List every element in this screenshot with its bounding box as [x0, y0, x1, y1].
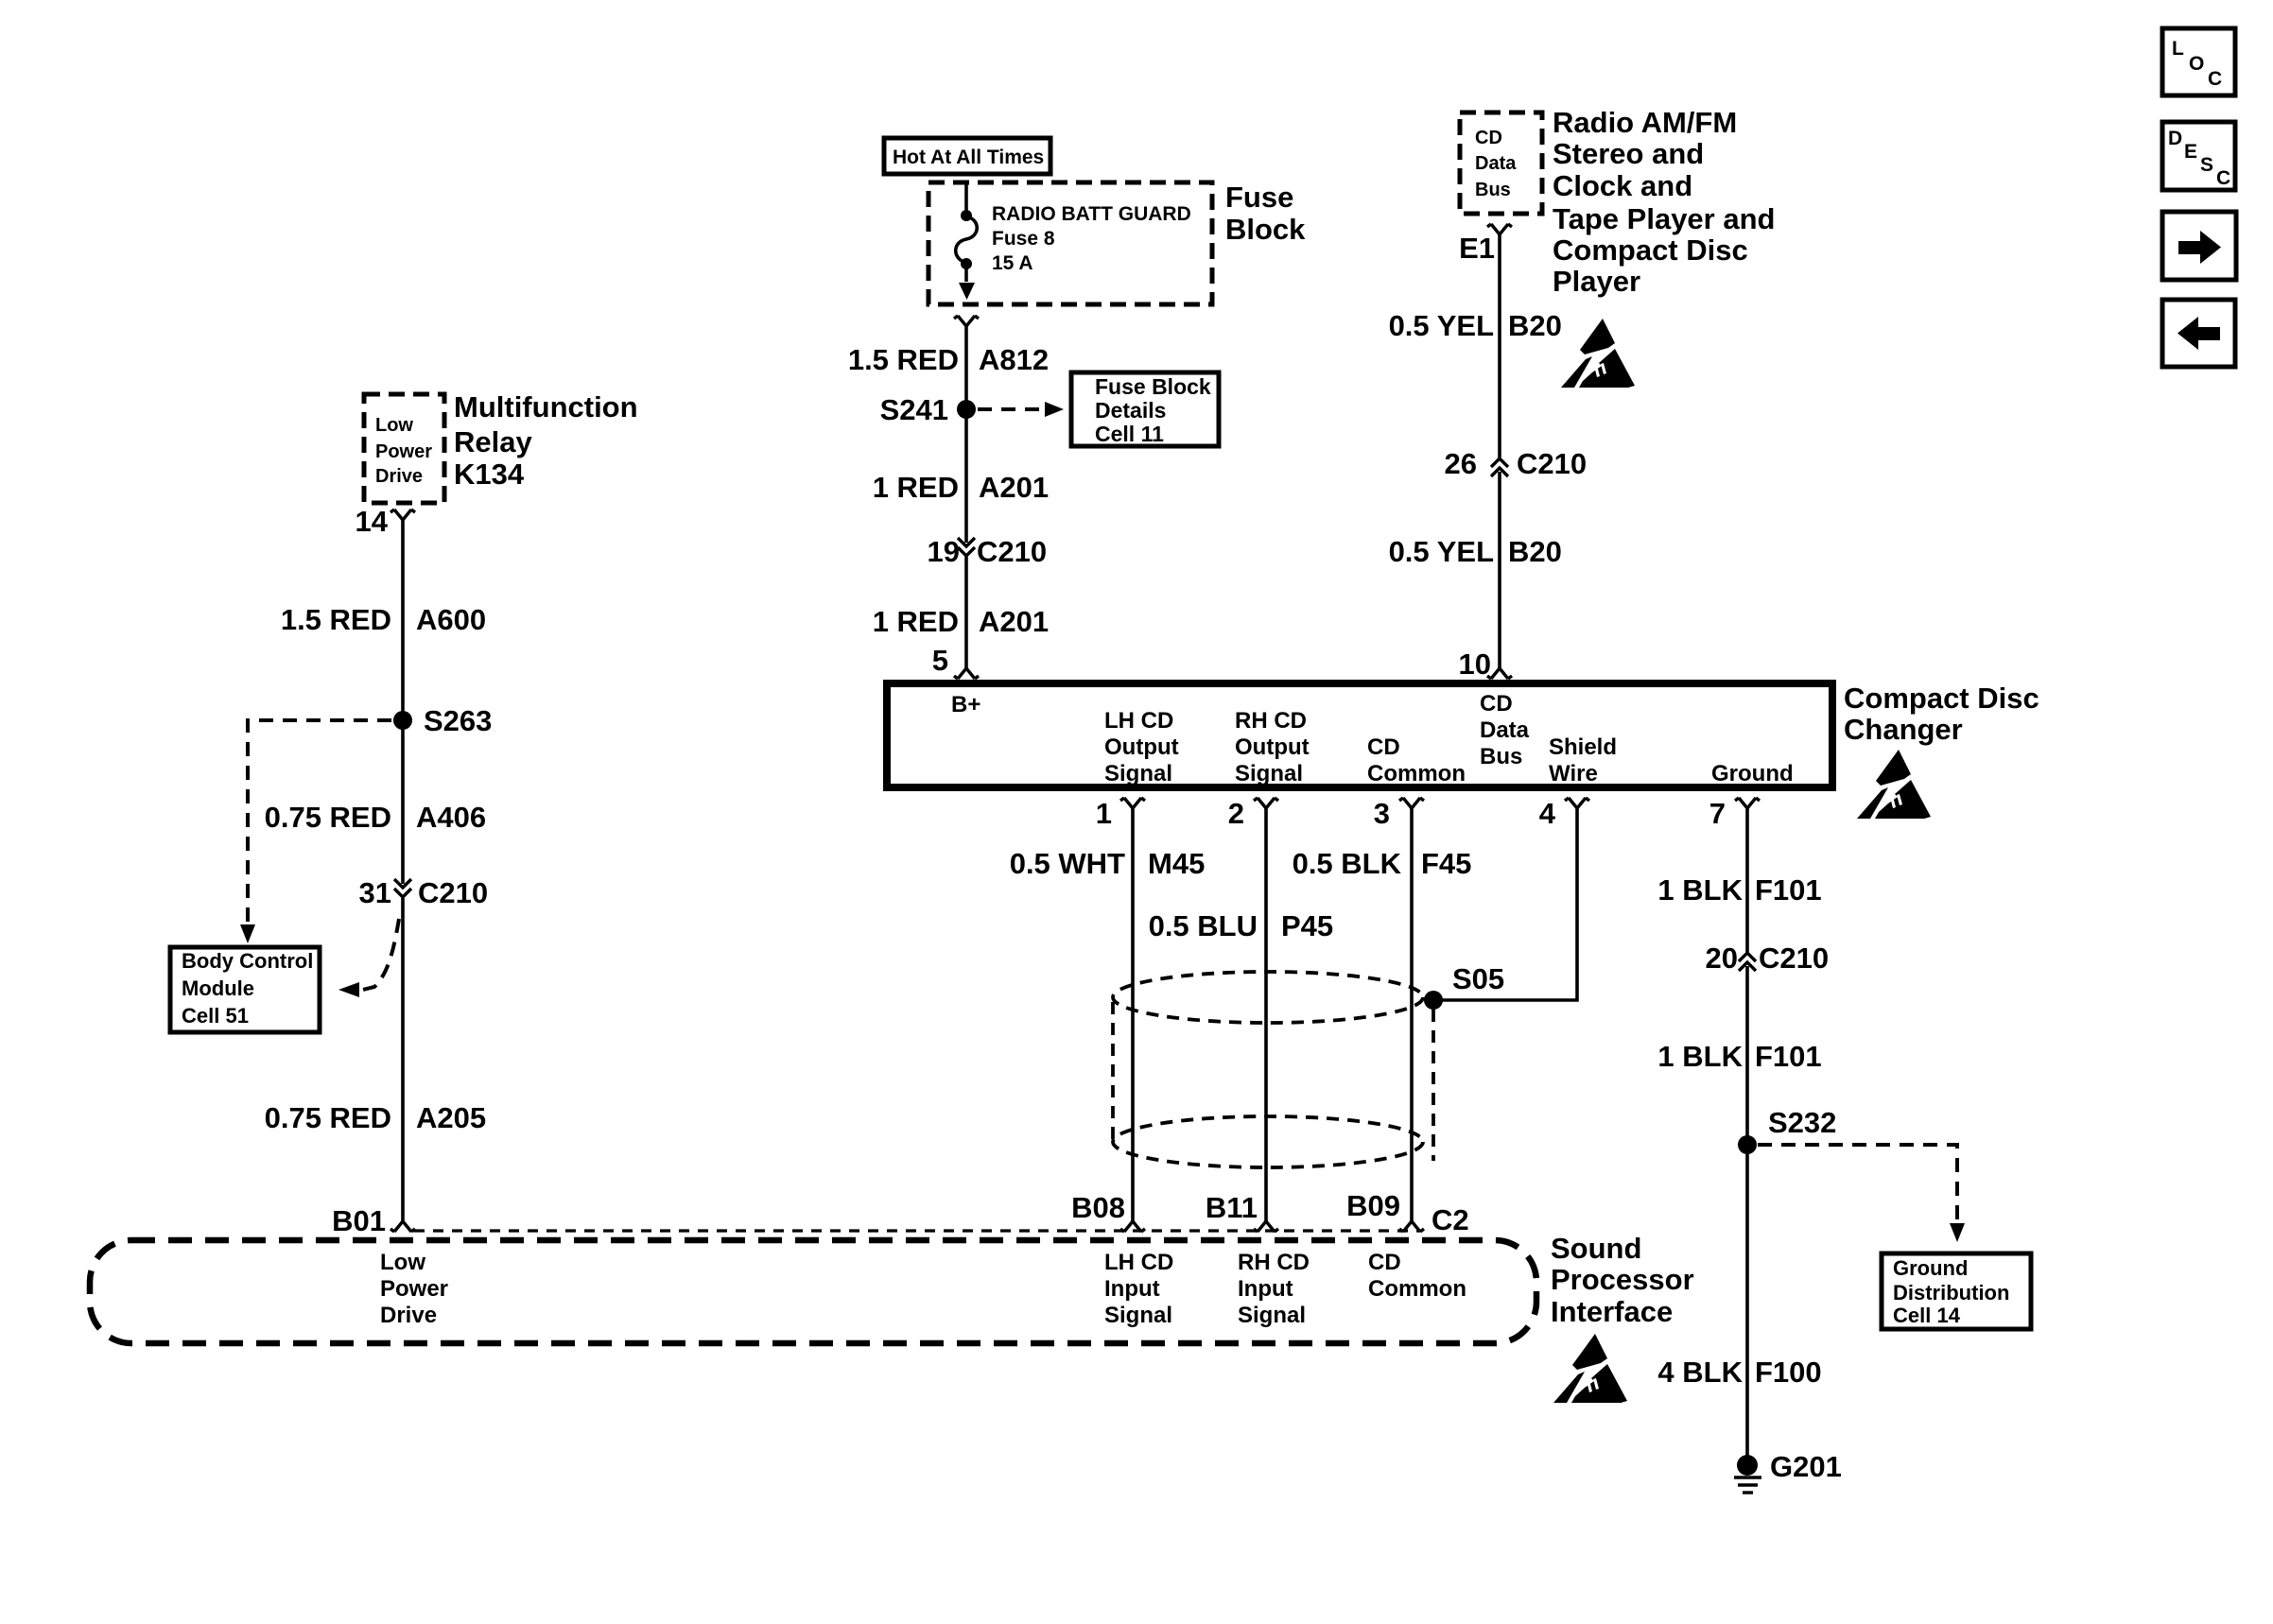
svg-text:LH CD: LH CD	[1104, 708, 1173, 734]
svg-text:CD: CD	[1480, 691, 1513, 717]
svg-text:15 A: 15 A	[992, 252, 1033, 274]
svg-text:Cell 14: Cell 14	[1893, 1304, 1961, 1327]
svg-text:Signal: Signal	[1238, 1303, 1306, 1328]
node S263	[393, 711, 412, 730]
svg-text:Radio AM/FM: Radio AM/FM	[1553, 106, 1737, 139]
svg-text:Tape Player and: Tape Player and	[1553, 202, 1775, 235]
svg-text:Ground: Ground	[1893, 1256, 1968, 1280]
svg-text:B11: B11	[1206, 1191, 1258, 1224]
hot at all times label box	[884, 138, 1050, 174]
svg-text:B20: B20	[1508, 309, 1562, 342]
ground G201	[1737, 1455, 1758, 1476]
fuse F8 wire into fuse	[964, 182, 968, 216]
svg-text:1 RED: 1 RED	[873, 471, 959, 504]
svg-text:RH CD: RH CD	[1238, 1250, 1310, 1275]
LOC button	[2162, 28, 2235, 95]
svg-text:Distribution: Distribution	[1893, 1281, 2009, 1304]
wire F101/F100 vertical	[1745, 808, 1749, 1465]
svg-text:31: 31	[359, 876, 391, 909]
svg-text:S: S	[2200, 154, 2213, 176]
wire B20 vertical	[1498, 234, 1501, 668]
svg-text:C210: C210	[1517, 447, 1587, 480]
svg-text:7: 7	[1709, 797, 1726, 830]
svg-text:1 BLK: 1 BLK	[1657, 1040, 1743, 1073]
svg-text:Common: Common	[1368, 1276, 1466, 1302]
svg-text:2: 2	[1228, 797, 1244, 830]
pin 10 connector fork	[1487, 668, 1512, 679]
svg-text:Shield: Shield	[1549, 734, 1617, 760]
svg-text:Body Control: Body Control	[182, 949, 313, 973]
svg-text:Data: Data	[1475, 153, 1517, 174]
svg-text:F100: F100	[1755, 1356, 1822, 1389]
svg-text:0.75 RED: 0.75 RED	[265, 1101, 391, 1134]
svg-text:26: 26	[1445, 447, 1477, 480]
svg-text:C210: C210	[418, 876, 488, 909]
svg-text:Output: Output	[1235, 734, 1310, 760]
svg-text:Clock and: Clock and	[1553, 169, 1692, 202]
fuse F8 element	[961, 210, 972, 221]
fuse block details box	[1071, 372, 1219, 446]
svg-text:Drive: Drive	[375, 466, 423, 487]
svg-text:Input: Input	[1238, 1276, 1293, 1302]
svg-text:C210: C210	[977, 535, 1047, 568]
svg-text:Common: Common	[1367, 761, 1466, 786]
svg-text:CD: CD	[1367, 734, 1400, 760]
svg-text:Player: Player	[1553, 265, 1640, 298]
svg-text:Relay: Relay	[454, 425, 532, 458]
back arrow button	[2162, 300, 2235, 367]
svg-text:Fuse Block: Fuse Block	[1095, 374, 1211, 399]
svg-text:Drive: Drive	[380, 1303, 437, 1328]
svg-text:B+: B+	[951, 692, 980, 717]
svg-text:Signal: Signal	[1104, 761, 1172, 786]
svg-text:D: D	[2168, 128, 2182, 149]
DESC button	[2162, 122, 2235, 190]
svg-text:F101: F101	[1755, 1040, 1822, 1073]
compact disc changer box	[887, 683, 1832, 787]
shield cylinder bottom ellipse	[1113, 1116, 1423, 1167]
svg-text:C210: C210	[1759, 942, 1829, 975]
svg-text:Bus: Bus	[1475, 180, 1511, 200]
svg-text:1.5 RED: 1.5 RED	[848, 343, 959, 376]
dashed reference from S232 to ground distribution	[1758, 1145, 1957, 1225]
svg-text:Details: Details	[1095, 398, 1166, 423]
svg-text:1 RED: 1 RED	[873, 605, 959, 638]
wire M45	[1131, 808, 1135, 1221]
ESD symbol compact disc changer	[1857, 750, 1931, 819]
svg-text:Low: Low	[380, 1250, 425, 1275]
svg-text:Signal: Signal	[1235, 761, 1303, 786]
ground distribution box	[1882, 1253, 2031, 1329]
ESD symbol radio	[1561, 319, 1635, 388]
node S232	[1738, 1135, 1757, 1154]
svg-text:CD: CD	[1475, 128, 1502, 148]
svg-text:O: O	[2189, 53, 2204, 75]
svg-text:Processor: Processor	[1551, 1263, 1694, 1296]
svg-text:Interface: Interface	[1551, 1295, 1673, 1328]
svg-text:Cell 51: Cell 51	[182, 1004, 249, 1028]
svg-text:K134: K134	[454, 458, 525, 491]
svg-text:0.5 BLU: 0.5 BLU	[1149, 909, 1258, 942]
shield cylinder top ellipse	[1113, 972, 1423, 1023]
svg-text:A205: A205	[416, 1101, 486, 1134]
wire P45	[1264, 808, 1268, 1221]
svg-text:A201: A201	[979, 605, 1049, 638]
shield drain dashed wire	[1431, 1010, 1435, 1161]
svg-text:10: 10	[1459, 648, 1491, 681]
svg-text:A201: A201	[979, 471, 1049, 504]
svg-text:Fuse: Fuse	[1225, 181, 1293, 214]
svg-text:B01: B01	[332, 1204, 386, 1237]
svg-text:C: C	[2216, 167, 2230, 189]
shield cylinder left wall	[1111, 1002, 1115, 1139]
svg-text:Hot At All Times: Hot At All Times	[893, 147, 1044, 168]
svg-text:M45: M45	[1148, 847, 1205, 880]
svg-text:A812: A812	[979, 343, 1049, 376]
fuse block dashed box	[928, 182, 1212, 304]
wire F45	[1410, 808, 1414, 1221]
svg-text:F45: F45	[1421, 847, 1471, 880]
svg-text:Signal: Signal	[1104, 1303, 1172, 1328]
dashed reference wire from S263 to Body Control Module	[248, 720, 391, 924]
svg-text:Compact Disc: Compact Disc	[1553, 233, 1748, 267]
svg-text:E: E	[2184, 141, 2197, 163]
svg-text:RADIO BATT GUARD: RADIO BATT GUARD	[992, 203, 1191, 225]
svg-text:Block: Block	[1225, 213, 1306, 246]
svg-text:Bus: Bus	[1480, 744, 1522, 769]
svg-text:Low: Low	[375, 415, 413, 436]
svg-text:Sound: Sound	[1551, 1232, 1641, 1265]
svg-text:S232: S232	[1768, 1106, 1836, 1139]
svg-text:B20: B20	[1508, 535, 1562, 568]
svg-text:B09: B09	[1346, 1189, 1400, 1222]
svg-text:C2: C2	[1431, 1203, 1469, 1236]
svg-text:0.75 RED: 0.75 RED	[265, 801, 391, 834]
svg-text:1 BLK: 1 BLK	[1657, 873, 1743, 907]
svg-text:Module: Module	[182, 976, 254, 1000]
svg-text:Output: Output	[1104, 734, 1179, 760]
pin E1 connector fork	[1487, 224, 1512, 234]
wire shield to S05	[1433, 808, 1577, 1000]
node S241	[957, 400, 976, 419]
svg-text:Data: Data	[1480, 717, 1530, 743]
svg-text:Power: Power	[380, 1276, 448, 1302]
svg-text:F101: F101	[1755, 873, 1822, 907]
svg-text:G201: G201	[1770, 1450, 1842, 1483]
svg-text:0.5 YEL: 0.5 YEL	[1389, 535, 1494, 568]
pin 14 connector fork	[390, 510, 415, 520]
dashed reference from C210 to body control module	[363, 919, 399, 990]
svg-text:Ground: Ground	[1711, 761, 1794, 786]
body control module box	[170, 947, 320, 1032]
svg-text:Input: Input	[1104, 1276, 1160, 1302]
svg-text:4: 4	[1539, 797, 1556, 830]
svg-text:1.5 RED: 1.5 RED	[281, 603, 391, 636]
svg-text:5: 5	[932, 644, 948, 677]
svg-text:0.5 WHT: 0.5 WHT	[1010, 847, 1125, 880]
svg-text:Compact Disc: Compact Disc	[1844, 682, 2039, 715]
svg-text:A406: A406	[416, 801, 486, 834]
svg-text:B08: B08	[1071, 1191, 1125, 1224]
svg-text:LH CD: LH CD	[1104, 1250, 1173, 1275]
ESD symbol sound processor interface	[1553, 1334, 1627, 1403]
dashed reference from S241 to fuse block details	[978, 407, 1045, 411]
svg-text:Stereo and: Stereo and	[1553, 137, 1704, 170]
svg-text:Power: Power	[375, 441, 432, 462]
svg-text:Multifunction: Multifunction	[454, 390, 638, 423]
svg-text:A600: A600	[416, 603, 486, 636]
svg-text:19: 19	[928, 535, 960, 568]
fuse block output connector fork	[954, 316, 979, 326]
wire A812/A201 vertical	[964, 326, 968, 668]
svg-text:C: C	[2208, 68, 2222, 90]
svg-text:1: 1	[1096, 797, 1112, 830]
svg-text:Wire: Wire	[1549, 761, 1598, 786]
svg-text:L: L	[2172, 38, 2184, 60]
svg-text:E1: E1	[1459, 232, 1495, 265]
radio CD data bus dashed box	[1460, 112, 1542, 214]
svg-text:S05: S05	[1452, 962, 1504, 995]
svg-text:0.5 BLK: 0.5 BLK	[1293, 847, 1402, 880]
svg-text:20: 20	[1706, 942, 1738, 975]
node S05	[1424, 991, 1443, 1010]
connector C2 dashed boundary line	[414, 1229, 1420, 1232]
svg-text:0.5 YEL: 0.5 YEL	[1389, 309, 1494, 342]
relay K134 dashed box (Low Power Drive)	[364, 394, 444, 503]
svg-text:P45: P45	[1281, 909, 1333, 942]
svg-text:3: 3	[1374, 797, 1390, 830]
svg-text:4 BLK: 4 BLK	[1657, 1356, 1743, 1389]
svg-text:Changer: Changer	[1844, 713, 1963, 746]
svg-text:RH CD: RH CD	[1235, 708, 1307, 734]
svg-text:S241: S241	[880, 393, 948, 426]
wire A600/A406/A205 vertical	[401, 520, 405, 1221]
pin 5 connector fork	[954, 668, 979, 679]
svg-text:Fuse 8: Fuse 8	[992, 228, 1055, 250]
svg-text:S263: S263	[424, 704, 492, 737]
svg-text:CD: CD	[1368, 1250, 1401, 1275]
next arrow button	[2162, 212, 2236, 280]
pin B01 connector fork	[390, 1221, 415, 1232]
sound processor interface dashed box	[90, 1240, 1536, 1343]
svg-text:Cell 11: Cell 11	[1095, 422, 1164, 446]
svg-text:14: 14	[356, 505, 389, 538]
